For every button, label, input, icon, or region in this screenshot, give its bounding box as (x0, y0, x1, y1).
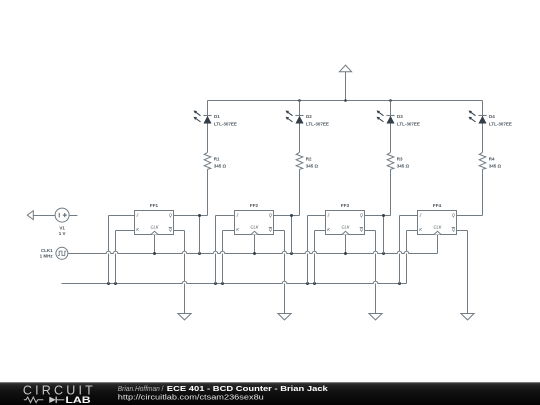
svg-text:FF1: FF1 (150, 203, 159, 208)
svg-text:345 Ω: 345 Ω (489, 163, 502, 168)
svg-text:D3: D3 (397, 114, 403, 119)
svg-text:FF2: FF2 (250, 203, 259, 208)
svg-text:FF4: FF4 (433, 203, 442, 208)
svg-text:CLK: CLK (434, 224, 442, 229)
svg-text:K: K (419, 227, 422, 232)
svg-text:FF3: FF3 (341, 203, 350, 208)
svg-text:http://circuitlab.com/ctsam236: http://circuitlab.com/ctsam236sex8u (118, 392, 264, 401)
svg-text:1 V: 1 V (59, 231, 66, 236)
svg-text:1 MHz: 1 MHz (40, 254, 54, 259)
svg-text:K: K (327, 227, 330, 232)
svg-text:R4: R4 (489, 156, 495, 161)
svg-text:R2: R2 (306, 156, 312, 161)
svg-text:CLK1: CLK1 (41, 248, 53, 253)
svg-text:D1: D1 (214, 114, 220, 119)
svg-text:CLK: CLK (342, 224, 350, 229)
svg-text:D2: D2 (306, 114, 312, 119)
svg-text:R3: R3 (397, 156, 403, 161)
svg-text:K: K (136, 227, 139, 232)
svg-text:345 Ω: 345 Ω (306, 163, 319, 168)
svg-text:LTL-307EE: LTL-307EE (214, 121, 237, 126)
svg-text:LTL-307EE: LTL-307EE (306, 121, 329, 126)
svg-text:CLK: CLK (151, 224, 159, 229)
svg-text:LTL-307EE: LTL-307EE (397, 121, 420, 126)
svg-text:R1: R1 (214, 156, 220, 161)
svg-text:CLK: CLK (251, 224, 259, 229)
svg-text:K: K (236, 227, 239, 232)
svg-text:D4: D4 (489, 114, 495, 119)
svg-text:345 Ω: 345 Ω (214, 163, 227, 168)
svg-text:LAB: LAB (65, 395, 91, 405)
svg-text:LTL-307EE: LTL-307EE (489, 121, 512, 126)
svg-text:345 Ω: 345 Ω (397, 163, 410, 168)
